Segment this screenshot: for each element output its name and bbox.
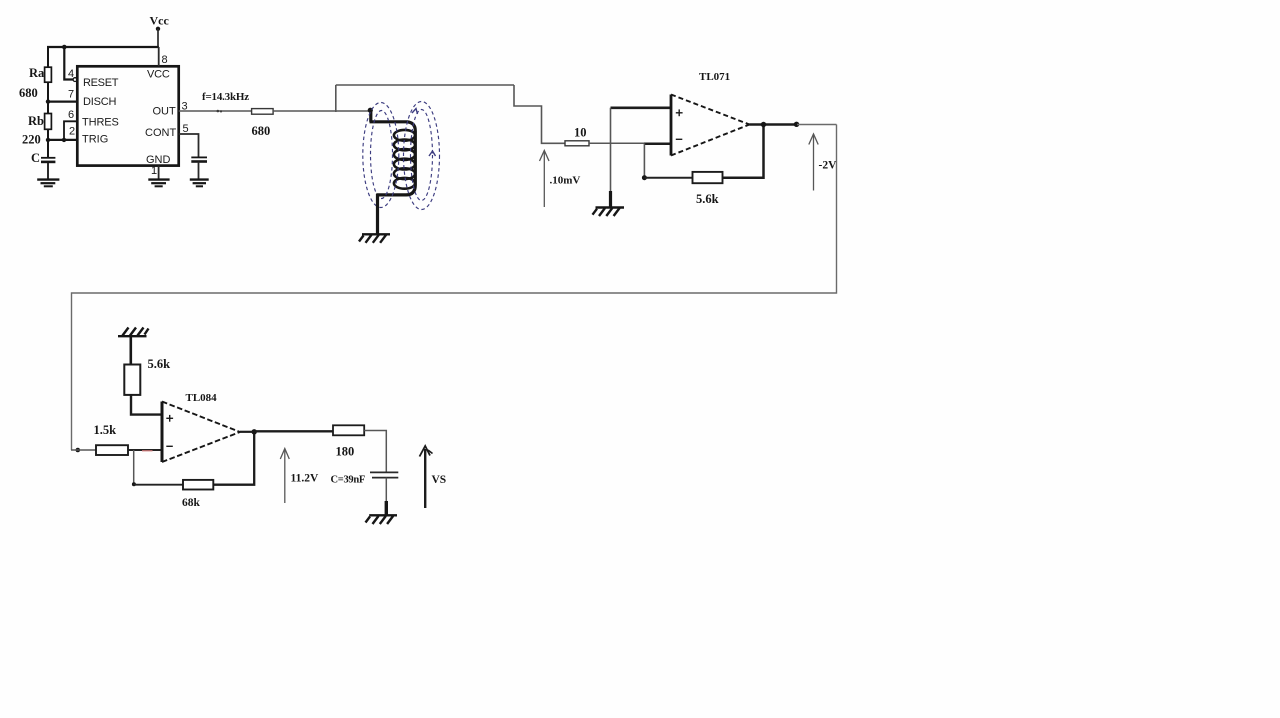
resistor 5.6k (TL071 feedback) <box>693 172 723 183</box>
wire 680 to coil <box>273 110 369 112</box>
wire Vcc down <box>157 29 159 47</box>
svg-text:THRES: THRES <box>82 116 119 128</box>
wire plus input to ground <box>610 108 612 192</box>
wire Ra to Rb <box>47 82 49 113</box>
svg-text:8: 8 <box>162 54 168 66</box>
svg-text:Vcc: Vcc <box>150 14 170 28</box>
ground under capacitor <box>366 515 398 524</box>
capacitor on CONT top plate <box>191 156 207 158</box>
svg-text:GND: GND <box>146 154 171 166</box>
svg-text:.10mV: .10mV <box>550 175 581 187</box>
wire feedback node to 5.6k <box>644 177 692 179</box>
svg-text:VS: VS <box>432 474 447 486</box>
ground TL084 bias (flipped) <box>118 328 149 337</box>
wire 10 to inverting input <box>589 142 646 144</box>
wire TRIG pin 2 <box>47 139 78 141</box>
Vcc terminal dot <box>156 27 160 31</box>
svg-text:680: 680 <box>19 86 38 100</box>
resistor 68k <box>183 480 213 490</box>
field arrow top <box>412 109 418 115</box>
input node dot <box>76 448 81 453</box>
magnetic field line ellipse left outer <box>363 103 399 208</box>
resistor 680 (output) <box>252 109 274 115</box>
wire output to right corner <box>797 124 837 126</box>
svg-text:1.5k: 1.5k <box>94 423 117 437</box>
IC U1 555 body <box>77 66 178 165</box>
svg-text:OUT: OUT <box>153 106 177 118</box>
junction node dot on Vcc rail <box>62 45 67 50</box>
arrow -2V <box>809 134 818 191</box>
svg-text:6: 6 <box>68 109 74 121</box>
capacitor C=39nF bottom plate <box>372 477 398 479</box>
magnetic field line ellipse right outer <box>404 102 440 210</box>
wire 5.6k to non-inverting input <box>131 395 162 415</box>
output node dot 2 <box>794 122 799 127</box>
wire capacitor to ground <box>385 478 387 503</box>
svg-text:DISCH: DISCH <box>83 96 116 108</box>
wire inverting node down <box>133 450 135 485</box>
svg-text:2: 2 <box>69 126 75 138</box>
arrow .10mV <box>540 151 550 208</box>
junction dot DISCH node <box>46 99 50 103</box>
resistor Rb <box>45 114 52 130</box>
wire staircase to amplifier <box>514 85 565 143</box>
wire bias ground to 5.6k <box>130 337 133 365</box>
magnetic field line ellipse right inner <box>411 110 433 201</box>
minus sign TL084 <box>166 445 173 447</box>
resistor 5.6k (bias) <box>124 365 140 395</box>
wire CONT cap to ground <box>198 162 200 179</box>
long wire to second stage <box>72 125 837 451</box>
svg-text:11.2V: 11.2V <box>291 473 319 485</box>
resistor 1.5k <box>96 445 128 455</box>
coil node dot <box>368 108 373 113</box>
inductor coil L <box>370 109 416 195</box>
wire Vcc rail to Ra <box>47 46 49 67</box>
op-amp U2 TL071 <box>671 95 750 156</box>
wire pin 5 CONT <box>179 134 199 157</box>
wire inverting input down to feedback <box>643 143 645 177</box>
wire TL084 output <box>240 431 254 433</box>
svg-text:Ra: Ra <box>29 66 45 80</box>
ground TL071 <box>593 208 625 217</box>
resistor 10 (input) <box>565 141 589 146</box>
junction dot TRIG node <box>46 138 50 142</box>
wire 1.5k to inverting input <box>128 449 162 451</box>
specks on OUT wire <box>217 110 220 113</box>
svg-text:680: 680 <box>252 124 271 138</box>
capacitor on CONT bottom plate <box>191 160 207 163</box>
svg-text:RESET: RESET <box>83 77 119 89</box>
plus sign TL071 <box>676 109 683 116</box>
wire Rb to capacitor C <box>47 129 49 157</box>
capacitor C top plate <box>41 157 55 159</box>
arrow 11.2V <box>280 449 289 504</box>
wire 180 to capacitor <box>364 431 386 472</box>
ground stem capacitor <box>385 501 388 515</box>
feedback node dot TL084 <box>132 482 136 486</box>
svg-text:Rb: Rb <box>28 114 44 128</box>
wire node to 1.5k <box>71 449 96 451</box>
svg-text:7: 7 <box>68 89 74 101</box>
svg-text:TL084: TL084 <box>186 392 218 404</box>
feedback node dot <box>642 175 647 180</box>
wire output to 180 <box>254 430 333 432</box>
svg-text:1: 1 <box>151 165 157 177</box>
svg-text:10: 10 <box>574 126 587 140</box>
svg-text:5.6k: 5.6k <box>148 357 171 371</box>
plus sign TL084 <box>166 415 173 422</box>
arrow VS <box>420 446 433 508</box>
op-amp U3 TL084 <box>162 402 240 463</box>
wire C to ground <box>47 162 49 179</box>
svg-text:f=14.3kHz: f=14.3kHz <box>202 91 249 103</box>
ground stem TL071 <box>609 191 612 207</box>
svg-text:220: 220 <box>22 133 41 147</box>
magnetic field line ellipse left inner <box>371 111 393 199</box>
svg-text:5.6k: 5.6k <box>696 192 719 206</box>
wire coil to ground <box>376 194 379 234</box>
svg-text:TRIG: TRIG <box>82 134 108 146</box>
wire pin 8 VCC <box>158 47 160 66</box>
wire OUT pin 3 <box>179 110 252 112</box>
wire pin 1 GND <box>158 166 160 179</box>
wire non-inverting input <box>611 107 672 110</box>
wire top rail <box>336 84 514 86</box>
wire feedback node to 68k <box>134 484 183 486</box>
svg-text:-2V: -2V <box>819 160 838 172</box>
wire 68k to output <box>213 432 254 485</box>
pin 4 connection dot <box>73 78 77 82</box>
wire DISCH pin 7 <box>47 100 78 102</box>
ground under C <box>37 180 59 187</box>
svg-text:VCC: VCC <box>147 69 170 81</box>
red mark on inverting wire <box>142 450 153 452</box>
TL084 output node dot <box>252 429 257 434</box>
svg-text:68k: 68k <box>182 497 201 509</box>
resistor Ra <box>45 67 52 82</box>
wire 5.6k to output <box>723 125 764 178</box>
capacitor C=39nF top plate <box>370 471 398 473</box>
wire TL071 output <box>750 123 798 125</box>
capacitor C bottom plate <box>41 161 55 164</box>
wire Vcc rail horizontal <box>47 46 159 48</box>
ground under coil <box>359 234 390 243</box>
svg-text:C=39nF: C=39nF <box>331 475 366 486</box>
field arrow right <box>429 151 436 156</box>
svg-text:4: 4 <box>68 68 74 80</box>
resistor 180 <box>333 425 364 435</box>
ground under pin 1 <box>148 180 169 187</box>
minus sign TL071 <box>676 138 683 140</box>
junction dot THRES branch <box>62 138 66 142</box>
wire THRES bracket to pin 6 <box>64 121 78 140</box>
svg-text:CONT: CONT <box>145 127 176 139</box>
svg-text:TL071: TL071 <box>699 71 730 83</box>
wire junction up to top rail <box>335 85 337 112</box>
output node dot 1 <box>761 122 766 127</box>
svg-text:180: 180 <box>336 445 355 459</box>
svg-text:C: C <box>31 151 40 165</box>
wire junction to pin 4 RESET <box>64 46 74 80</box>
ground under CONT cap <box>190 180 209 187</box>
